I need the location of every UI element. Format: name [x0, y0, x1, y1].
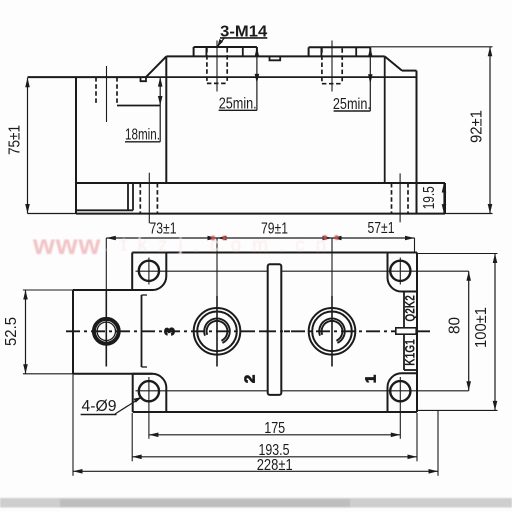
- svg-text:92±1: 92±1: [469, 110, 486, 143]
- arrows 100±1: [493, 254, 498, 264]
- extension right end: [414, 238, 416, 254]
- terminal boss block 1 top: [194, 46, 257, 48]
- baseplate bottom line: [76, 213, 445, 215]
- internal vertical edge x=166: [165, 56, 167, 183]
- hidden tapped hole block 1: [206, 48, 208, 83]
- dimension 228±1: [73, 470, 438, 472]
- left terminal block outline: [73, 289, 142, 291]
- hidden tapped hole left section: [95, 77, 97, 105]
- arrows 18min: [158, 77, 163, 87]
- leader 3-M14: [218, 38, 225, 46]
- main terminal 2 spiral washer: [319, 319, 345, 343]
- dimension 193.5: [132, 456, 417, 458]
- baseplate top line: [76, 182, 445, 184]
- groove end verticals: [127, 183, 129, 210]
- internal vertical edge x=384.7: [384, 56, 386, 182]
- body right edge: [416, 71, 418, 214]
- main terminal 1 outer circles: [194, 308, 241, 355]
- arrows 175: [149, 433, 159, 438]
- centerline block 2: [331, 41, 333, 92]
- divider slot: [268, 264, 282, 395]
- vertical centerline small terminal: [105, 290, 107, 367]
- plan body bottom edge: [133, 411, 417, 413]
- svg-text:2: 2: [242, 375, 259, 383]
- plan body left edge top tab: [131, 253, 133, 291]
- right chamfer diagonal: [385, 56, 402, 70]
- dimension row 73/79/57: [106, 237, 414, 239]
- dimension 80: [468, 271, 470, 391]
- svg-text:100±1: 100±1: [473, 307, 490, 348]
- top-right tab inner edge: [388, 253, 418, 292]
- corner hole bottom-left: [139, 381, 159, 401]
- main terminal 1 spiral washer: [204, 319, 230, 343]
- plan body top edge: [132, 252, 417, 254]
- small gate terminal: [94, 319, 119, 344]
- arrows row 73/79/57: [106, 236, 116, 241]
- arrows 193.5: [132, 455, 142, 460]
- top-left tab inner edge: [132, 253, 166, 291]
- extension small terminal center: [105, 238, 107, 290]
- centerline baseplate hole right: [399, 173, 401, 222]
- arrows 228±1: [73, 469, 83, 474]
- extension terminal1 center: [216, 238, 218, 296]
- chamfer diagonal left: [146, 56, 166, 77]
- dimension 92±1 line: [489, 47, 491, 214]
- svg-text:52.5: 52.5: [3, 317, 20, 346]
- top surface of tall section: [166, 55, 384, 57]
- main terminal 2 outer circles: [309, 308, 356, 355]
- upper frame line through holes: [136, 270, 469, 272]
- arrows 92±1: [488, 47, 493, 57]
- dimension 175: [149, 434, 400, 436]
- svg-text:3: 3: [162, 327, 179, 335]
- inner body edge between left tabs: [141, 295, 143, 367]
- corner hole top-right: [390, 261, 410, 281]
- plan body right edge: [416, 253, 418, 413]
- bottom grey scan band: [0, 498, 512, 508]
- vertical centerline terminal1: [216, 296, 218, 367]
- dimension 18min line: [159, 77, 161, 142]
- svg-text:228±1: 228±1: [257, 457, 293, 474]
- hidden tapped hole block 2: [321, 48, 323, 83]
- dimension 19.5 line: [443, 183, 445, 214]
- centerline left hole: [106, 66, 108, 122]
- corner hole bottom-right: [390, 381, 410, 401]
- small notch on left top surface: [141, 77, 147, 81]
- internal horizontal line y=76.7: [146, 76, 417, 78]
- arrows 25min block2: [368, 47, 373, 57]
- arrows 80: [466, 271, 471, 281]
- corner hole top-left: [139, 261, 159, 281]
- dimension 75±1 line: [27, 78, 29, 214]
- svg-text:18min.: 18min.: [125, 126, 160, 143]
- svg-text:4-Ø9: 4-Ø9: [82, 398, 117, 415]
- hidden baseplate hole right: [391, 183, 393, 214]
- middle notch on top surface: [270, 56, 281, 60]
- extension terminal2 center: [331, 238, 333, 296]
- svg-text:19.5: 19.5: [421, 186, 438, 209]
- hidden baseplate hole left: [139, 183, 141, 214]
- dimension 25min block2 line: [369, 47, 371, 111]
- 18min reference line: [117, 105, 160, 107]
- vertical centerline terminal2: [331, 296, 333, 367]
- side view body left edge: [75, 77, 77, 214]
- leader 4-Ø9: [115, 397, 142, 414]
- svg-text:80: 80: [447, 317, 464, 334]
- arrows 52.5: [23, 290, 28, 300]
- watermark www: [32, 229, 337, 260]
- centerline block 1: [216, 41, 218, 92]
- watermark red dots: [211, 235, 339, 240]
- centerline baseplate hole left: [148, 173, 150, 224]
- baseplate right edge: [444, 183, 446, 214]
- svg-text:Q2K2: Q2K2: [401, 295, 417, 322]
- dimension 25min block1 line: [256, 47, 258, 110]
- svg-text:.tkzj.com.cn: .tkzj.com.cn: [105, 235, 337, 256]
- arrows 19.5: [442, 183, 447, 193]
- svg-text:www: www: [32, 229, 101, 260]
- right top step horizontal: [402, 70, 417, 72]
- arrows 75±1: [25, 78, 30, 88]
- arrowhead leader 3-M14: [217, 39, 223, 47]
- dimension 52.5: [25, 290, 27, 374]
- svg-text:25min.: 25min.: [333, 96, 371, 113]
- baseplate left groove line: [76, 209, 133, 211]
- centerline over slot: [262, 330, 290, 332]
- main horizontal centerline: [66, 330, 430, 332]
- arrows 25min block1: [255, 47, 260, 57]
- bottom-right tab inner edge: [388, 373, 418, 412]
- dimension 100±1: [494, 254, 496, 411]
- lower frame line through holes: [136, 390, 469, 392]
- plan body left edge bottom tab: [132, 374, 134, 412]
- svg-text:57±1: 57±1: [368, 220, 395, 237]
- svg-text:75±1: 75±1: [7, 125, 24, 155]
- marking plate tab rect: [396, 328, 416, 334]
- arrowhead leader 4-Ø9: [134, 397, 143, 403]
- terminal boss block 2 top: [309, 46, 371, 48]
- svg-text:1: 1: [363, 375, 380, 383]
- svg-text:K1G1: K1G1: [401, 339, 417, 366]
- bottom-left tab inner edge: [133, 374, 167, 412]
- svg-text:175: 175: [264, 420, 285, 437]
- side view top-left surface line with extension: [28, 76, 147, 78]
- terminal marking plate: [403, 292, 405, 371]
